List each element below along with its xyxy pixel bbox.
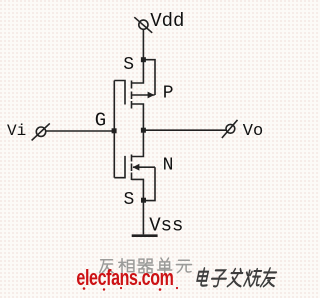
svg-text:G: G — [95, 110, 106, 132]
watermark text elecfans.com (red) — [76, 267, 178, 291]
svg-text:N: N — [163, 156, 174, 176]
power rail bar Vss — [132, 234, 158, 237]
svg-text:Vdd: Vdd — [150, 10, 184, 32]
svg-text:Vss: Vss — [149, 215, 183, 237]
wire Vi input — [46, 130, 115, 132]
svg-text:S: S — [124, 190, 135, 210]
wire PMOS bulk tie (source to substrate) — [144, 60, 156, 95]
input terminal Vi — [32, 123, 50, 140]
svg-text:Vo: Vo — [243, 122, 263, 141]
output terminal Vo — [222, 120, 238, 138]
node S (NMOS source junction) — [141, 198, 146, 203]
wire NMOS source to Vss — [132, 179, 144, 234]
node Vo (output junction) — [141, 128, 146, 133]
watermark text 电子发烧友 (dark italic row) — [196, 268, 278, 286]
caption text 反相器单元 (gray watermark row) — [100, 258, 192, 273]
wire gate bus (PMOS gate to NMOS gate) — [113, 81, 115, 178]
node G (gate junction) — [112, 128, 117, 133]
svg-text:S: S — [123, 55, 134, 75]
wire NMOS bulk tie (substrate to source) — [143, 167, 155, 200]
node S (PMOS source junction) — [141, 57, 146, 62]
transistor P (PMOS) — [114, 81, 154, 109]
svg-text:Vi: Vi — [7, 122, 26, 140]
power terminal Vdd — [134, 17, 152, 33]
wire Vdd stem to PMOS source contact — [132, 29, 144, 83]
svg-text:P: P — [163, 84, 174, 104]
wire PMOS drain to output node to NMOS drain — [132, 104, 144, 157]
transistor N (NMOS) — [114, 155, 155, 181]
svg-text:elecfans.com: elecfans.com — [76, 267, 173, 291]
wire Vo output — [143, 129, 226, 131]
